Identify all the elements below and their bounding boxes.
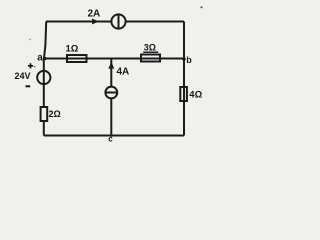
svg-text:4Ω: 4Ω: [189, 90, 202, 101]
svg-text:3Ω: 3Ω: [144, 43, 156, 53]
svg-text:2A: 2A: [88, 8, 101, 19]
svg-text:2Ω: 2Ω: [49, 109, 61, 119]
svg-text:4A: 4A: [117, 66, 130, 77]
svg-text:a: a: [37, 52, 43, 63]
svg-text:b: b: [186, 55, 192, 65]
svg-text:c: c: [108, 135, 113, 144]
svg-text:24V: 24V: [15, 71, 31, 81]
svg-text:1Ω: 1Ω: [66, 44, 79, 55]
